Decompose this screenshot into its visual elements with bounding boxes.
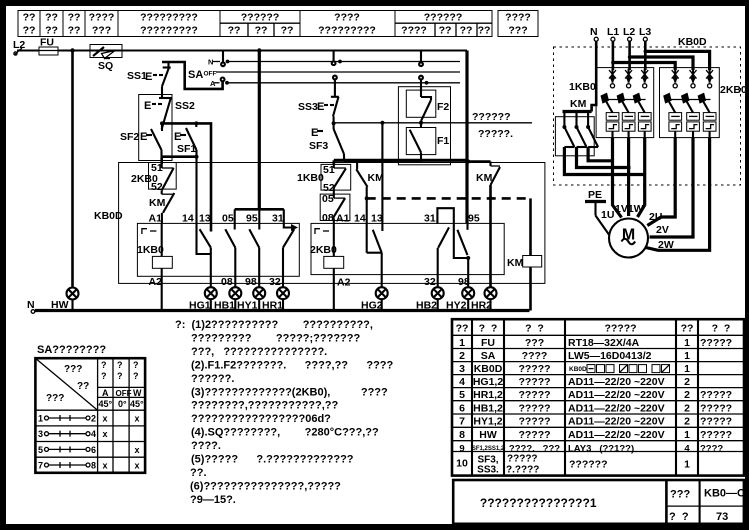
relay module KB0D enclosure xyxy=(94,163,545,284)
wire KM middle to KM coil - dashed xyxy=(367,197,531,200)
svg-text:2: 2 xyxy=(459,350,465,362)
svg-text:???????????????1: ???????????????1 xyxy=(480,496,597,510)
svg-text:x: x xyxy=(134,445,139,455)
svg-text:??: ?? xyxy=(460,24,473,36)
svg-text:?: ? xyxy=(117,371,123,381)
svg-text:????????,???????????,??: ????????,???????????,?? xyxy=(191,400,338,412)
svg-text:A2: A2 xyxy=(337,277,351,289)
svg-text:x: x xyxy=(102,429,107,439)
wire 2KB0 outputs to motor 2U 2V 2W xyxy=(646,138,710,251)
wire SA-A2 to SS3 xyxy=(334,79,336,97)
contactor KM power poles xyxy=(555,98,598,156)
svg-text:1V1W: 1V1W xyxy=(615,203,644,215)
wire FU to SQ - main top bus xyxy=(58,49,467,51)
svg-text:L3: L3 xyxy=(639,26,651,38)
svg-text:(3)?????????????(2KB0),: (3)?????????????(2KB0), ???? xyxy=(191,386,388,398)
svg-text:HY1: HY1 xyxy=(237,300,258,312)
svg-text:F1: F1 xyxy=(437,135,449,147)
junction V1 on common wire xyxy=(465,159,470,164)
start button SF1 xyxy=(174,123,197,156)
svg-text:8: 8 xyxy=(91,461,96,471)
wire SA-A to SS1 xyxy=(162,62,223,89)
relay contact 1KB0 13-14 self hold xyxy=(200,229,211,288)
indicator lamp HW xyxy=(67,288,79,300)
svg-text:08: 08 xyxy=(221,276,233,288)
svg-text:?: ? xyxy=(133,360,139,370)
node L2 supply terminal xyxy=(13,39,25,55)
svg-text:????: ???? xyxy=(334,12,360,24)
svg-text:????: ???? xyxy=(401,24,427,36)
emergency stop SS2 xyxy=(144,98,195,129)
svg-text:SF2: SF2 xyxy=(120,131,139,143)
svg-text:4: 4 xyxy=(684,443,690,454)
svg-text:E: E xyxy=(145,71,152,83)
wire 1KB0 outputs to motor 1U 1V 1W xyxy=(613,138,645,218)
svg-text:0°: 0° xyxy=(118,399,127,409)
thermal trip F1 xyxy=(398,123,449,161)
svg-text:32: 32 xyxy=(424,276,436,288)
svg-text:??????: ?????? xyxy=(472,111,510,123)
svg-text:? ?: ? ? xyxy=(669,511,689,523)
wire bridge center leg 95 xyxy=(258,209,260,229)
svg-text:?????: ????? xyxy=(700,402,732,414)
svg-text:31: 31 xyxy=(272,213,284,225)
svg-text:6: 6 xyxy=(459,402,465,414)
svg-text:2W: 2W xyxy=(658,239,674,251)
wire 14 from SF bottom into box1 xyxy=(197,157,211,254)
svg-text:KB0D: KB0D xyxy=(94,210,123,222)
svg-text:5: 5 xyxy=(38,445,43,455)
svg-text:??: ?? xyxy=(45,12,58,24)
svg-text:45°: 45° xyxy=(130,399,144,409)
svg-text:?????: ????? xyxy=(700,429,732,441)
svg-text:2KB0: 2KB0 xyxy=(720,84,747,96)
svg-text:????: ???? xyxy=(89,12,115,24)
wire 95 stub into box2 xyxy=(466,223,468,229)
svg-text:HG1: HG1 xyxy=(189,300,211,312)
SA contact column 3 xyxy=(419,51,428,85)
enclosure box SS2 SF2 xyxy=(139,95,172,161)
svg-text:(5)????? ?.?????????????: (5)????? ?.????????????? xyxy=(191,454,354,466)
svg-text:3: 3 xyxy=(459,363,465,375)
thermal trip F2 xyxy=(406,80,449,122)
svg-text:?????: ????? xyxy=(700,416,732,428)
wire 13 from F junction into box2 xyxy=(381,123,383,231)
svg-text:2: 2 xyxy=(684,402,690,414)
svg-text:????????? ?????;???????: ????????? ?????;??????? xyxy=(191,332,360,344)
protective earth PE xyxy=(585,189,609,235)
svg-text:2: 2 xyxy=(91,414,96,424)
relay contact 1KB0 05-08 xyxy=(225,229,235,288)
SA selector function table xyxy=(35,344,145,473)
svg-text:?????????????????06d?: ?????????????????06d? xyxy=(191,413,331,425)
svg-text:KM: KM xyxy=(570,98,587,110)
svg-text:??: ?? xyxy=(45,24,58,36)
annotation leader line xyxy=(334,122,532,124)
svg-text:SS2: SS2 xyxy=(175,100,195,112)
svg-text:?????: ????? xyxy=(507,454,538,465)
svg-text:1: 1 xyxy=(684,429,690,441)
svg-text:???: ??? xyxy=(92,24,111,36)
svg-text:W: W xyxy=(133,388,142,398)
svg-text:1: 1 xyxy=(684,337,690,349)
svg-text:HG2: HG2 xyxy=(361,300,383,312)
svg-text:??: ?? xyxy=(23,24,36,36)
svg-text:HR1,2: HR1,2 xyxy=(473,389,503,401)
svg-text:??: ?? xyxy=(228,24,241,36)
svg-text:SA: SA xyxy=(481,350,496,362)
svg-text:FU: FU xyxy=(481,337,495,349)
auxiliary contact 1KB0 51-52 xyxy=(297,164,351,194)
emergency stop SS1 xyxy=(127,62,171,98)
svg-text:??: ?? xyxy=(68,24,81,36)
svg-text:AD11—22/20 ~220V: AD11—22/20 ~220V xyxy=(568,402,665,414)
svg-text:14: 14 xyxy=(182,213,194,225)
relay contact 2KB0 95-98 xyxy=(457,230,470,288)
svg-text:?.????: ?.???? xyxy=(506,465,539,476)
svg-text:08: 08 xyxy=(322,212,334,224)
svg-text:?????.: ?????. xyxy=(478,128,513,140)
contactor coil KM xyxy=(507,198,542,310)
svg-text:E: E xyxy=(144,100,151,112)
svg-text:AD11—22/20 ~220V: AD11—22/20 ~220V xyxy=(568,376,665,388)
svg-text:L2: L2 xyxy=(13,39,25,51)
svg-text:SS3: SS3 xyxy=(298,101,318,113)
svg-text:7: 7 xyxy=(459,416,465,428)
svg-text:1KB0: 1KB0 xyxy=(569,81,596,93)
table header row xyxy=(456,323,731,335)
wire L2 feeder xyxy=(628,41,693,70)
indicator lamp HB1 xyxy=(229,287,241,299)
contactor aux contact KM right xyxy=(476,162,500,289)
wire N feeder xyxy=(592,41,597,111)
svg-text:32: 32 xyxy=(269,276,281,288)
relay contact 2KB0 31-32 xyxy=(438,227,449,287)
svg-text:13: 13 xyxy=(199,213,211,225)
indicator lamp HG2 xyxy=(376,287,388,299)
junction SS2 bottom xyxy=(160,121,164,125)
svg-text:?????: ????? xyxy=(604,323,636,335)
svg-text:A1: A1 xyxy=(336,213,350,225)
svg-text:1: 1 xyxy=(684,459,690,471)
terminal labels box1 bottom xyxy=(149,276,281,288)
wire bus to 95 bridge - vertical V2 xyxy=(258,51,261,210)
svg-text:7: 7 xyxy=(38,461,43,471)
svg-text:AD11—22/20 ~220V: AD11—22/20 ~220V xyxy=(568,416,665,428)
wire HW to N bus xyxy=(71,299,73,311)
svg-text:E: E xyxy=(140,131,147,143)
svg-text:SF1,2SS1,2: SF1,2SS1,2 xyxy=(472,446,505,452)
svg-text:(4).SQ????????, ?280°C?: (4).SQ????????, ?280°C???,?? xyxy=(191,427,379,439)
svg-text:???: ??? xyxy=(508,24,527,36)
fuse FU xyxy=(39,37,58,56)
svg-text:?????: ????? xyxy=(518,429,550,441)
svg-text:????: ???? xyxy=(522,350,548,362)
relay block 2 outline xyxy=(311,223,504,274)
wire N bus bottom xyxy=(35,309,530,312)
svg-text:??????: ?????? xyxy=(569,459,607,471)
wire main bus right elbow down V1 xyxy=(465,51,468,224)
svg-text:HW: HW xyxy=(51,299,69,311)
svg-text:?????????: ????????? xyxy=(140,24,198,36)
svg-text:KB0—C?: KB0—C? xyxy=(704,488,749,500)
svg-text:SQ: SQ xyxy=(98,60,113,72)
svg-text:??: ?? xyxy=(255,24,268,36)
svg-text:F2: F2 xyxy=(437,101,449,113)
indicator lamp HY1 xyxy=(253,287,265,299)
svg-text:???: ??? xyxy=(46,393,64,404)
wire W1 left end to 1KB0 contact xyxy=(332,160,335,164)
svg-text:3: 3 xyxy=(38,429,43,439)
SA table contact rows xyxy=(38,414,140,471)
svg-text:2U: 2U xyxy=(649,211,662,223)
svg-text:?: ? xyxy=(117,360,123,370)
svg-text:?????: ????? xyxy=(518,363,550,375)
svg-text:KB0D: KB0D xyxy=(678,36,707,48)
svg-text:95: 95 xyxy=(468,213,480,225)
junction V2 top xyxy=(257,48,261,52)
svg-text:1: 1 xyxy=(459,337,465,349)
svg-text:?????: ????? xyxy=(518,376,550,388)
wire L2 to FU xyxy=(17,49,39,51)
wire F1 bottom to common node xyxy=(344,160,398,163)
svg-text:????.: ????. xyxy=(191,440,221,452)
junction KM right bottom xyxy=(489,196,493,200)
svg-text:x: x xyxy=(134,461,139,471)
svg-text:?????: ????? xyxy=(518,402,550,414)
svg-text:HB1: HB1 xyxy=(214,300,235,312)
svg-text:? ?: ? ? xyxy=(479,323,498,335)
svg-text:x: x xyxy=(102,414,107,424)
wire bridge left leg 05 xyxy=(234,209,236,229)
notes text block xyxy=(175,319,394,506)
svg-text:?9—15?.: ?9—15?. xyxy=(190,494,236,506)
svg-text:4: 4 xyxy=(459,376,465,388)
svg-text:1: 1 xyxy=(684,350,690,362)
wire 05 bridge from V2 xyxy=(235,208,284,211)
svg-text:x: x xyxy=(102,461,107,471)
svg-text:KM: KM xyxy=(507,257,524,269)
svg-text:HR2: HR2 xyxy=(471,300,492,312)
indicator lamp HR2 xyxy=(485,287,497,299)
svg-text:?????: ????? xyxy=(518,389,550,401)
power terminals N L1 L2 L3 xyxy=(590,26,651,41)
terminal labels box2 top xyxy=(336,213,480,225)
svg-text:05: 05 xyxy=(322,193,334,205)
contactor aux contact KM self-hold left xyxy=(149,190,174,223)
svg-text:LW5—16D0413/2: LW5—16D0413/2 xyxy=(568,350,652,362)
indicator lamp HG1 xyxy=(205,287,217,299)
svg-text:HB1,2: HB1,2 xyxy=(473,402,503,414)
svg-text:KM: KM xyxy=(476,172,493,184)
junction SF1 top xyxy=(194,121,198,125)
svg-text:95: 95 xyxy=(246,213,258,225)
svg-text:6: 6 xyxy=(91,445,96,455)
annotation text xyxy=(472,111,513,140)
wire SF2 SF1 bottoms joined xyxy=(162,155,197,158)
svg-text:?: ? xyxy=(133,371,139,381)
svg-text:OFF: OFF xyxy=(116,389,132,398)
svg-text:KB0D: KB0D xyxy=(569,366,587,373)
svg-text:x: x xyxy=(134,414,139,424)
motor M xyxy=(609,219,648,258)
svg-text:45°: 45° xyxy=(99,399,113,409)
svg-text:HB2: HB2 xyxy=(416,300,437,312)
svg-text:??: ?? xyxy=(681,323,694,335)
svg-text:1KB0: 1KB0 xyxy=(137,244,164,256)
svg-text:???: ??? xyxy=(64,364,82,375)
enclosure box F1 F2 xyxy=(398,87,450,165)
svg-text:KB0D: KB0D xyxy=(474,363,503,375)
svg-text:? ?: ? ? xyxy=(525,323,544,335)
svg-text:A: A xyxy=(102,388,109,398)
relay coil 1KB0 xyxy=(137,223,172,310)
svg-text:??????: ?????? xyxy=(424,12,462,24)
svg-text:??????: ?????? xyxy=(241,12,279,24)
SA contact column 1 xyxy=(221,51,230,85)
svg-text:1: 1 xyxy=(38,414,43,424)
wire left bus down to HW xyxy=(71,51,74,289)
svg-text:??: ?? xyxy=(456,323,469,335)
contactor aux contact KM middle xyxy=(356,160,384,252)
svg-text:??: ?? xyxy=(439,24,452,36)
relay coil 2KB0 xyxy=(310,223,344,310)
header title block row xyxy=(18,11,538,37)
svg-text:14: 14 xyxy=(354,213,366,225)
indicator lamp HY2 xyxy=(462,287,474,299)
svg-text:1: 1 xyxy=(684,363,690,375)
svg-text:??: ?? xyxy=(23,12,36,24)
wire L3 feeder xyxy=(644,41,710,70)
svg-text:A: A xyxy=(210,79,216,88)
relay contact 2KB0 13-14 self hold xyxy=(367,230,382,288)
svg-text:PE: PE xyxy=(588,189,602,201)
indicator lamp HB2 xyxy=(432,287,444,299)
emergency stop SS3 xyxy=(298,97,339,124)
svg-text:L2: L2 xyxy=(623,26,635,38)
svg-text:N: N xyxy=(208,58,213,67)
svg-text:??.: ??. xyxy=(190,467,207,479)
svg-text:L1: L1 xyxy=(607,26,619,38)
svg-text:HG1,2: HG1,2 xyxy=(473,376,504,388)
wire bridge right leg 31 with arrow xyxy=(284,209,298,231)
svg-text:4: 4 xyxy=(91,429,96,439)
motor terminal labels xyxy=(601,203,674,251)
svg-text:??: ?? xyxy=(281,24,294,36)
terminal labels box2 bottom xyxy=(337,276,470,289)
svg-text:(2).F1.F2???????. ????,??: (2).F1.F2???????. ????,?? ???? xyxy=(191,359,394,371)
svg-text:??: ?? xyxy=(478,24,491,36)
svg-text:??????.: ??????. xyxy=(191,373,234,385)
svg-text:?: ? xyxy=(101,371,107,381)
junction SF bottom xyxy=(195,155,199,159)
svg-text:98: 98 xyxy=(245,276,257,288)
table body rows xyxy=(459,337,732,454)
junction 13 wire on leader xyxy=(380,121,384,125)
svg-text:05: 05 xyxy=(222,213,234,225)
svg-text:?????: ????? xyxy=(700,337,732,349)
svg-text:HY1,2: HY1,2 xyxy=(473,416,502,428)
switch module 2KB0 xyxy=(660,68,748,138)
svg-text:?????????: ????????? xyxy=(318,24,376,36)
svg-text:KM: KM xyxy=(149,197,166,209)
svg-text:(6)???????????????,?????: (6)???????????????,????? xyxy=(190,480,341,492)
svg-text:?????: ????? xyxy=(518,416,550,428)
component list table xyxy=(452,319,744,475)
start button SF2 xyxy=(120,123,162,156)
svg-text:??: ?? xyxy=(77,381,89,392)
relay contact 1KB0 31-32 xyxy=(283,229,294,288)
svg-text:31: 31 xyxy=(424,213,436,225)
svg-text:2V: 2V xyxy=(656,224,669,236)
svg-text:????: ???? xyxy=(700,443,723,454)
junction F1 F2 node xyxy=(419,121,423,125)
svg-text:A2: A2 xyxy=(149,276,163,288)
svg-text:HY2: HY2 xyxy=(446,300,467,312)
svg-text:?????????: ????????? xyxy=(140,12,198,24)
wire SF bottom down to 2KB0 contact xyxy=(160,157,163,164)
svg-text:SF3: SF3 xyxy=(309,140,328,152)
svg-text:9: 9 xyxy=(459,443,464,454)
limit switch SQ xyxy=(90,45,122,73)
SA contact column 2 xyxy=(332,51,342,80)
svg-text:A1: A1 xyxy=(149,213,163,225)
svg-text:SA????????: SA???????? xyxy=(37,344,106,356)
relay contact 1KB0 95-98 xyxy=(249,229,259,288)
svg-text:13: 13 xyxy=(371,213,383,225)
svg-text:????: ???? xyxy=(505,12,531,24)
relay block 1 outline xyxy=(137,223,299,276)
svg-text:OFF: OFF xyxy=(204,71,217,78)
svg-text:1U: 1U xyxy=(601,209,614,221)
switch module 1KB0 xyxy=(569,68,654,138)
auxiliary contact 2KB0 51-52 xyxy=(131,162,176,193)
svg-text:2: 2 xyxy=(684,416,690,428)
indicator lamp HR1 xyxy=(277,287,289,299)
svg-text:???, ???????????????.: ???, ???????????????. xyxy=(191,346,327,358)
auxiliary contact 1KB0 05-08 xyxy=(320,188,350,224)
svg-text:?: (1)2?????????? ????: ?: (1)2?????????? ??????????, xyxy=(175,319,373,331)
svg-text:10: 10 xyxy=(456,458,468,470)
svg-text:SS1: SS1 xyxy=(127,70,147,82)
wire L1 feeder xyxy=(611,41,675,70)
svg-text:?????: ????? xyxy=(700,389,732,401)
junction left bus xyxy=(70,48,74,52)
svg-text:?: ? xyxy=(101,360,107,370)
svg-text:AD11—22/20 ~220V: AD11—22/20 ~220V xyxy=(568,389,665,401)
svg-text:SS3.: SS3. xyxy=(477,465,499,476)
svg-text:? ?: ? ? xyxy=(712,323,731,335)
svg-text:???: ??? xyxy=(670,489,690,501)
junction SS3 bottom xyxy=(332,121,336,125)
wire SS2 bottom to right branch xyxy=(162,123,211,231)
wire 31 bracket xyxy=(437,208,468,258)
svg-text:E: E xyxy=(311,127,318,139)
table row 10 xyxy=(456,454,690,476)
power module enclosure KB0D dashed xyxy=(554,36,741,185)
title block xyxy=(453,480,749,524)
svg-text:??: ?? xyxy=(68,12,81,24)
svg-text:N: N xyxy=(590,26,598,38)
svg-text:E: E xyxy=(317,101,324,113)
wire KM pole outputs bars xyxy=(564,147,646,175)
svg-text:???: ??? xyxy=(525,337,544,349)
lamp tails to N bus xyxy=(211,299,491,311)
wire common node W1 xyxy=(334,159,467,162)
svg-text:HW: HW xyxy=(479,429,497,441)
svg-text:RT18—32X/4A: RT18—32X/4A xyxy=(568,337,640,349)
svg-text:AD11—22/20 ~220V: AD11—22/20 ~220V xyxy=(568,429,665,441)
